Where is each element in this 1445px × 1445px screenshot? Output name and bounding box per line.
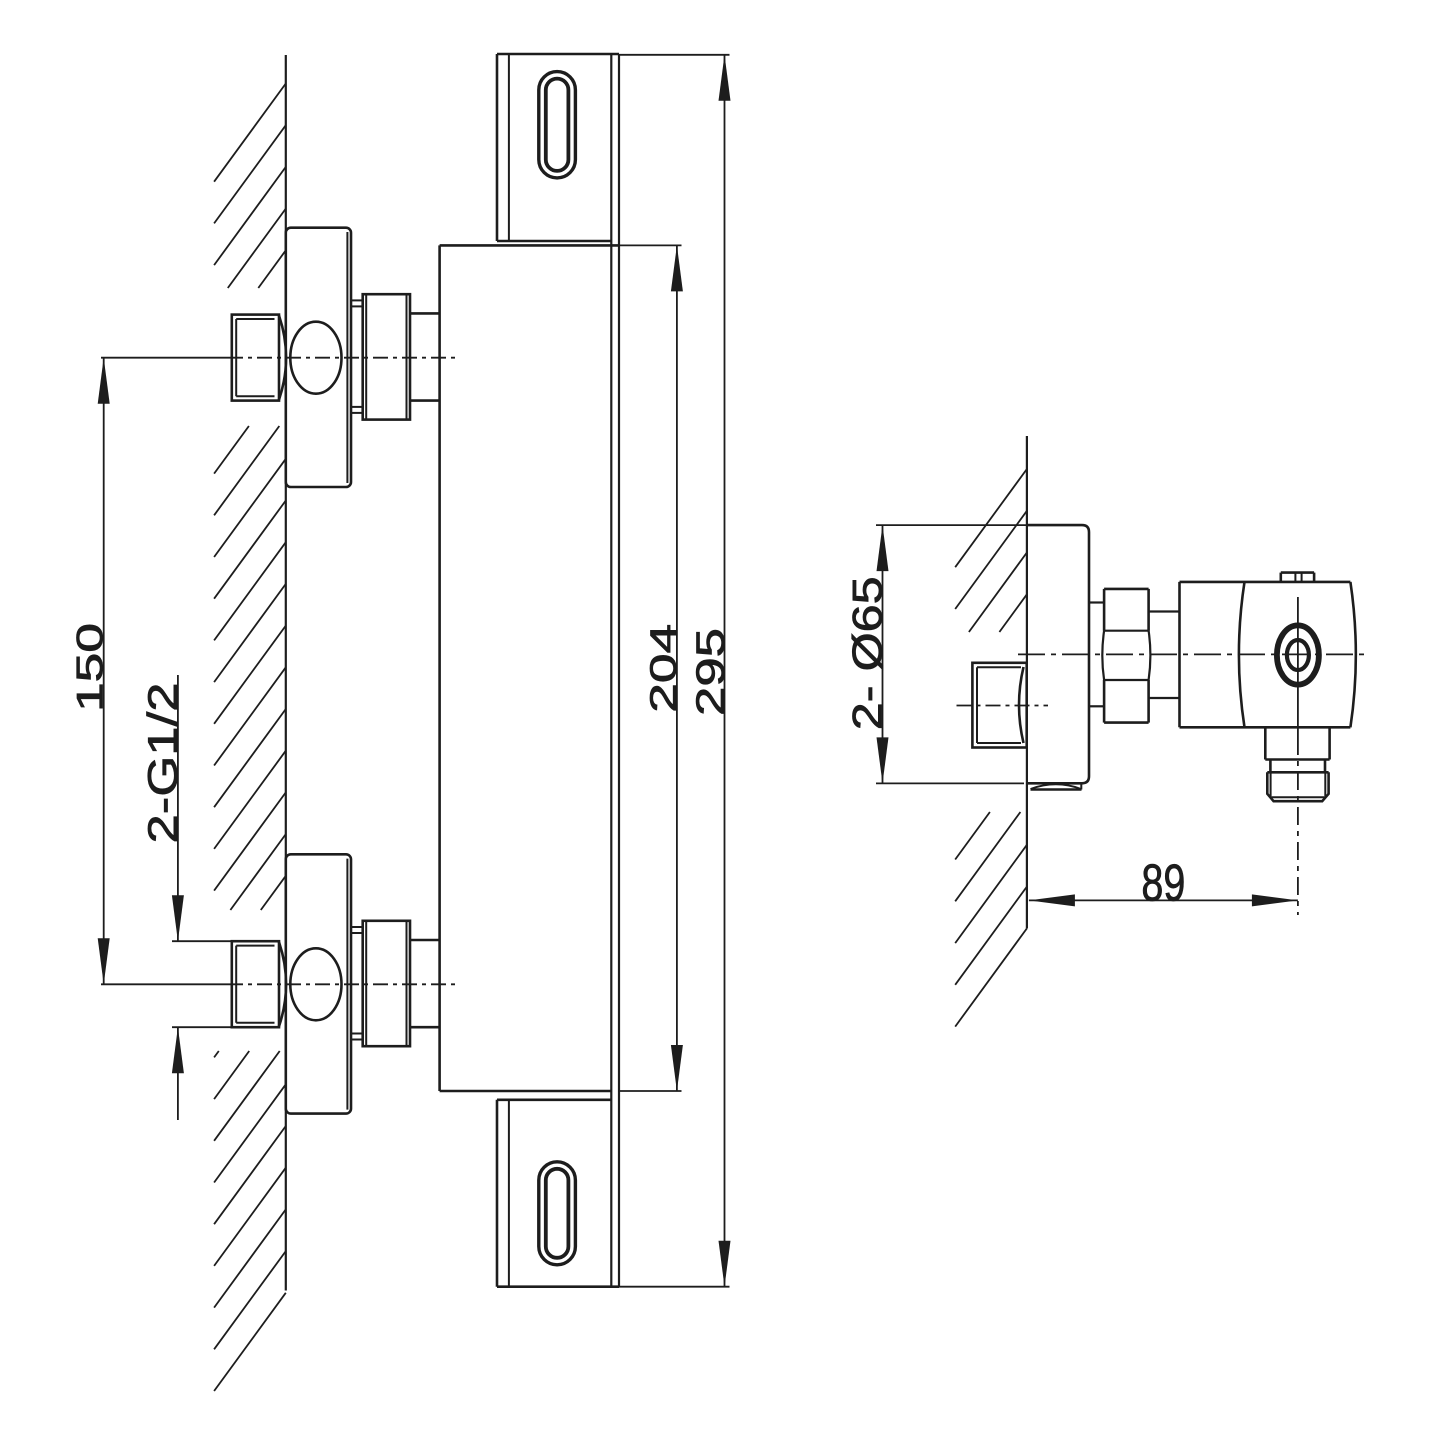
- lower connection thread lines: [351, 927, 363, 1040]
- dimension line 295: [619, 55, 731, 1287]
- bottom bracket slot (outer): [539, 1162, 576, 1265]
- control knob inner knurl: [1287, 640, 1309, 670]
- dimension text 295: [689, 628, 733, 716]
- control knob outer ring: [1277, 625, 1319, 684]
- supply elbow centerline: [957, 705, 1049, 707]
- supply elbow behind wall: [972, 663, 1026, 748]
- tube nut-to-body: [1149, 612, 1180, 699]
- lower union nut: [363, 921, 410, 1046]
- valve body (side view): [1180, 582, 1356, 727]
- upper body inlet boss: [410, 313, 440, 400]
- lower body inlet boss: [410, 940, 440, 1027]
- bottom bracket slot (inner): [546, 1169, 569, 1258]
- wall face line (front view): [285, 55, 287, 1291]
- dimension line 2-G1/2 lower arrow: [172, 1027, 184, 1120]
- dimension text 204: [642, 624, 684, 713]
- svg-text:295: 295: [689, 628, 733, 716]
- top mounting bracket: [497, 54, 619, 241]
- dimension line 89: [1029, 894, 1298, 906]
- lower inlet escutcheon plate: [286, 854, 351, 1113]
- dimension line 2-G1/2 upper arrow: [172, 675, 184, 941]
- svg-text:204: 204: [642, 624, 684, 713]
- upper ball joint: [290, 322, 341, 394]
- mounting rail outer edge: [610, 54, 612, 1287]
- dimension line 150: [98, 358, 110, 985]
- top bracket slot (outer): [539, 72, 576, 178]
- dimension text 2-G1/2: [139, 683, 186, 844]
- upper connection thread lines: [351, 300, 363, 413]
- wall hatching (front view): [214, 84, 286, 1392]
- lower inlet centerline: [101, 983, 455, 985]
- lower ball joint: [290, 948, 341, 1020]
- thread tube plate-to-nut: [1089, 603, 1104, 707]
- outlet step 2: [1267, 760, 1328, 773]
- upper wall union square fitting: [232, 315, 286, 401]
- mounting rail back edge: [618, 54, 620, 1287]
- escutcheon plate bottom lip: [1031, 784, 1082, 790]
- hex union nut (side view): [1102, 589, 1150, 723]
- upper union nut: [363, 294, 410, 419]
- outlet step 1: [1265, 727, 1329, 759]
- valve body (front view): [440, 245, 619, 1091]
- dimension text 2-dia65: [843, 576, 890, 730]
- wall hatching (side view): [955, 469, 1027, 1027]
- svg-text:150: 150: [70, 623, 111, 712]
- dimension text 89: [1141, 854, 1185, 912]
- svg-text:89: 89: [1141, 854, 1185, 912]
- dimension line 204: [619, 245, 683, 1091]
- lower wall union square fitting: [232, 941, 286, 1027]
- bottom mounting bracket: [497, 1100, 619, 1287]
- dimension line 2-dia65: [876, 525, 1027, 783]
- svg-text:2- Ø65: 2- Ø65: [843, 576, 890, 730]
- svg-text:2-G1/2: 2-G1/2: [139, 683, 186, 844]
- escutcheon plate (side view): [1027, 525, 1089, 783]
- main axis centerline (side view): [1018, 653, 1369, 655]
- extension lines 2-G1/2: [172, 941, 232, 1027]
- outlet threaded end: [1267, 772, 1328, 801]
- knob vertical centerline: [1297, 597, 1299, 915]
- top bracket slot (inner): [546, 79, 569, 171]
- upper inlet centerline: [101, 357, 455, 359]
- top adjuster button: [1281, 573, 1314, 582]
- upper inlet escutcheon plate: [286, 228, 351, 487]
- wall face line (side view): [1026, 436, 1028, 928]
- dimension text 150: [70, 623, 111, 712]
